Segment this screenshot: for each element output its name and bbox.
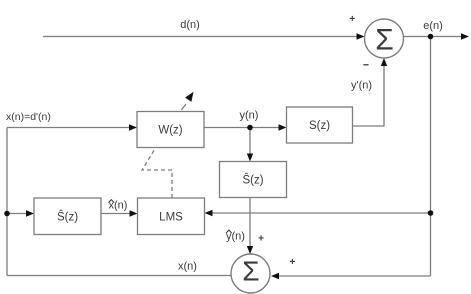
arrowhead: into W(z) (129, 124, 137, 130)
svg-text:Σ: Σ (375, 24, 394, 57)
wire: e(n) output line (404, 36, 462, 38)
block S(z) (287, 107, 353, 143)
svg-text:e(n): e(n) (423, 20, 443, 32)
arrowhead: into S-hat copy (26, 210, 34, 216)
wire: x(n) input horizontal (7, 127, 130, 129)
block LMS (138, 198, 205, 235)
wire: feedback to summer 2 (279, 275, 431, 277)
wire: error to LMS (212, 212, 431, 214)
svg-text:+: + (289, 257, 295, 268)
dashed adaptation arrow segment above W(z) (181, 104, 186, 110)
svg-text:Ŝ(z): Ŝ(z) (57, 211, 78, 224)
arrowhead: into summer 2 from right (271, 273, 279, 279)
wire: left feedback vertical (6, 128, 8, 276)
wire: x(n) output bottom line (7, 275, 231, 277)
block S-hat(z) (middle) (220, 162, 287, 198)
svg-text:y'(n): y'(n) (351, 80, 372, 92)
arrowhead: into LMS from right (205, 210, 213, 216)
arrowhead: down into summer 2 (247, 246, 253, 254)
wire: y(n) branch down to S-hat (249, 128, 251, 154)
arrowhead: dashed adaptation arrow tip (185, 92, 193, 102)
wire: y(n) from W(z) to S(z) (204, 127, 279, 129)
summer U2 (bottom) (231, 254, 270, 293)
wire: x-hat to LMS (101, 213, 130, 215)
node: e(n) junction (428, 34, 434, 40)
node: reference branch junction (4, 211, 10, 217)
svg-text:+: + (258, 234, 264, 245)
svg-text:d(n): d(n) (180, 19, 200, 31)
svg-text:LMS: LMS (159, 212, 183, 224)
wire: S(z) output up to summer 1 (353, 66, 385, 127)
arrowhead: into LMS from left (130, 210, 138, 216)
wire: d(n) input line (43, 36, 363, 38)
arrowhead: into summer 1 (357, 33, 365, 39)
block W(z) (137, 112, 204, 148)
node: y(n) junction (247, 125, 253, 131)
node: error branch junction (428, 210, 434, 216)
wire: filtered y-hat down to summer 2 (249, 198, 251, 247)
wire: reference to S-hat copy (7, 213, 27, 215)
summer U1 (top) (365, 19, 404, 58)
arrowhead: up into summer 1 from S(z) (381, 58, 387, 66)
svg-text:S(z): S(z) (309, 120, 330, 132)
svg-text:+: + (349, 14, 355, 25)
minus sign at summer 1 (363, 64, 368, 66)
arrowhead: into S(z) (279, 124, 287, 130)
wire: e(n) feedback vertical (430, 37, 432, 277)
svg-text:x(n): x(n) (178, 261, 197, 273)
dashed adaptation path from LMS to W(z) (142, 148, 172, 198)
arrowhead: e(n) output (461, 33, 469, 39)
svg-text:Ŝ(z): Ŝ(z) (242, 174, 263, 187)
svg-text:y(n): y(n) (240, 110, 259, 122)
arrowhead: down into S-hat (247, 154, 253, 162)
svg-text:y(n): y(n) (226, 231, 245, 243)
svg-text:W(z): W(z) (158, 125, 182, 137)
block S-hat(z) (left copy) (34, 198, 101, 235)
svg-text:Σ: Σ (242, 256, 259, 287)
svg-text:x(n)=d'(n): x(n)=d'(n) (6, 111, 51, 123)
svg-text:x(n): x(n) (109, 200, 128, 212)
